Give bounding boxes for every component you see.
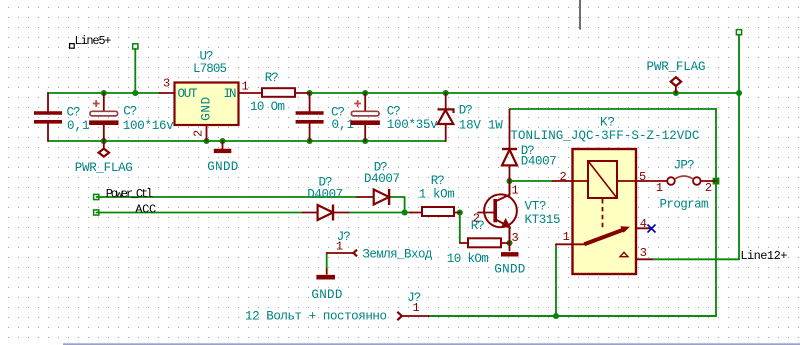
svg-text:VT?: VT? <box>525 199 547 213</box>
svg-text:1: 1 <box>413 301 420 315</box>
transistor Q1 KT315 <box>478 181 561 243</box>
svg-text:IN: IN <box>224 87 237 101</box>
wire base node down to R3 <box>459 213 461 244</box>
capacitor C1 0.1 <box>34 93 90 141</box>
svg-text:K?: K? <box>600 116 615 130</box>
svg-text:12 Вольт + постоянно: 12 Вольт + постоянно <box>245 309 387 323</box>
svg-text:L7805: L7805 <box>193 62 227 76</box>
svg-text:3: 3 <box>512 231 519 245</box>
svg-text:1: 1 <box>336 239 343 253</box>
svg-text:2: 2 <box>705 181 712 195</box>
svg-text:KT315: KT315 <box>525 213 561 227</box>
wire ACC <box>97 212 303 214</box>
svg-text:3: 3 <box>640 246 647 260</box>
node Line5+ label <box>70 34 112 48</box>
wire collector to relay pin2 <box>510 180 553 182</box>
svg-text:2: 2 <box>560 170 567 184</box>
resistor R3 10 kOm <box>447 219 510 266</box>
svg-text:GNDD: GNDD <box>494 262 525 276</box>
svg-text:100*35v: 100*35v <box>387 118 438 132</box>
svg-text:D4007: D4007 <box>307 187 343 201</box>
svg-text:100*16v: 100*16v <box>123 119 174 133</box>
svg-text:Power_Ctl: Power_Ctl <box>106 187 154 201</box>
svg-text:OUT: OUT <box>178 87 198 101</box>
wire bottom rail <box>48 93 446 141</box>
ground GNDD under regulator <box>207 141 238 174</box>
wire end square Line5+ <box>133 44 138 49</box>
diode D2 D4007 on Power_Ctl <box>357 161 400 206</box>
wire Power_Ctl corner down <box>389 197 405 213</box>
svg-text:5: 5 <box>639 170 646 184</box>
junction 12V node <box>553 313 559 319</box>
svg-text:1 kOm: 1 kOm <box>419 187 455 201</box>
capacitor C2 100*16v polarized <box>89 93 174 141</box>
svg-text:10 kOm: 10 kOm <box>447 252 489 266</box>
jumper JP1 Program <box>656 158 716 211</box>
diode D1 D4007 on ACC <box>303 176 349 221</box>
junction bottom rail GNDD <box>219 138 225 144</box>
junction diode merge <box>402 209 408 215</box>
connector J2 <box>397 291 429 320</box>
wire top rail right of regulator <box>308 92 739 94</box>
wire top rail <box>48 92 160 94</box>
svg-text:1: 1 <box>512 183 519 197</box>
junction bottom rail C2 <box>101 138 107 144</box>
junction top rail zener <box>443 90 449 96</box>
junction top rail C3 <box>307 90 313 96</box>
svg-text:Program: Program <box>660 198 709 212</box>
svg-text:GND: GND <box>200 97 214 121</box>
svg-text:C?: C? <box>123 104 137 118</box>
svg-text:18V 1W: 18V 1W <box>459 118 503 132</box>
no-connect X pin 4 <box>648 225 656 233</box>
sheet frame divider top <box>579 0 581 30</box>
svg-text:Line5+: Line5+ <box>75 34 112 48</box>
junction bottom rail C4 <box>362 138 368 144</box>
wire right vertical up <box>738 35 740 94</box>
pin 4 K1 <box>637 217 651 231</box>
junction top rail Line5+ <box>132 90 138 96</box>
zener diode D5 18V 1W <box>438 93 504 141</box>
wire J1 down to GNDD <box>326 253 328 269</box>
svg-text:PWR_FLAG: PWR_FLAG <box>75 161 133 175</box>
capacitor C3 0.1 <box>296 93 354 141</box>
wire right vertical down to pin3 <box>652 93 739 259</box>
pin 3 K1 <box>637 246 653 260</box>
svg-text:D4007: D4007 <box>521 155 557 169</box>
global label Power_Ctl <box>94 187 154 201</box>
svg-text:Земля_Вход: Земля_Вход <box>362 247 432 261</box>
svg-text:TONLING_JQC-3FF-S-Z-12VDC: TONLING_JQC-3FF-S-Z-12VDC <box>510 129 699 143</box>
ground GNDD under transistor <box>494 243 525 276</box>
junction emitter node <box>506 240 512 246</box>
junction top rail C2 <box>101 90 107 96</box>
global label ACC <box>94 203 157 217</box>
svg-text:D?: D? <box>459 103 473 117</box>
wire flyback top <box>429 109 716 316</box>
sheet frame bottom line <box>63 343 800 345</box>
regulator U1 L7805 <box>175 50 239 126</box>
svg-text:4: 4 <box>640 217 647 231</box>
pin 3 U1 <box>160 77 175 94</box>
ground GNDD under J1 <box>311 269 342 302</box>
svg-text:R?: R? <box>431 174 445 188</box>
svg-text:C?: C? <box>67 106 81 120</box>
svg-text:1: 1 <box>242 80 249 94</box>
power flag PWR_FLAG right <box>647 60 706 93</box>
junction top rail C4 <box>362 90 368 96</box>
svg-text:2: 2 <box>473 211 480 225</box>
svg-text:R?: R? <box>265 71 279 85</box>
wire relay pin1 down <box>555 244 557 316</box>
pin 1 K1 <box>556 230 572 244</box>
svg-text:1: 1 <box>656 181 663 195</box>
svg-text:2: 2 <box>192 130 206 137</box>
junction collector node <box>506 178 512 184</box>
svg-text:1: 1 <box>563 230 570 244</box>
resistor R2 1 kOm <box>410 174 460 216</box>
junction base node <box>457 209 463 215</box>
junction bottom rail C3 <box>307 138 313 144</box>
pin 2 K1 <box>553 170 573 184</box>
pin 1 U1 <box>239 80 262 94</box>
svg-text:10 Om: 10 Om <box>250 100 285 114</box>
pin 5 K1 <box>637 170 668 184</box>
svg-text:JP?: JP? <box>674 158 695 172</box>
svg-text:PWR_FLAG: PWR_FLAG <box>647 60 706 74</box>
wire 12V bottom <box>429 315 716 317</box>
capacitor C4 100*35v polarized <box>351 93 439 141</box>
svg-text:D4007: D4007 <box>364 172 400 186</box>
pin 2 U1 <box>192 126 207 142</box>
wire Power_Ctl <box>97 196 358 198</box>
svg-text:GNDD: GNDD <box>311 288 342 302</box>
relay K1 TONLING_JQC-3FF-S-Z-12VDC <box>510 116 699 274</box>
svg-text:0,1: 0,1 <box>67 119 90 133</box>
junction top rail PWR_FLAG <box>673 90 679 96</box>
wire end square top right <box>736 30 741 35</box>
resistor R1 10 Om <box>250 71 310 114</box>
svg-text:3: 3 <box>163 77 170 91</box>
wire ACC after diode <box>349 212 413 214</box>
wire Line5+ drop <box>134 49 136 93</box>
power flag PWR_FLAG left <box>75 141 133 175</box>
diode D3 D4007 flyback <box>502 110 557 182</box>
junction top rail right corner <box>736 90 742 96</box>
connector J1 <box>327 230 357 256</box>
svg-text:GNDD: GNDD <box>207 160 238 174</box>
junction bottom rail reg pin2 <box>203 138 209 144</box>
svg-text:Line12+: Line12+ <box>740 249 787 263</box>
junction JP2 node <box>713 178 720 185</box>
svg-text:ACC: ACC <box>135 203 156 217</box>
svg-text:C?: C? <box>387 105 401 119</box>
